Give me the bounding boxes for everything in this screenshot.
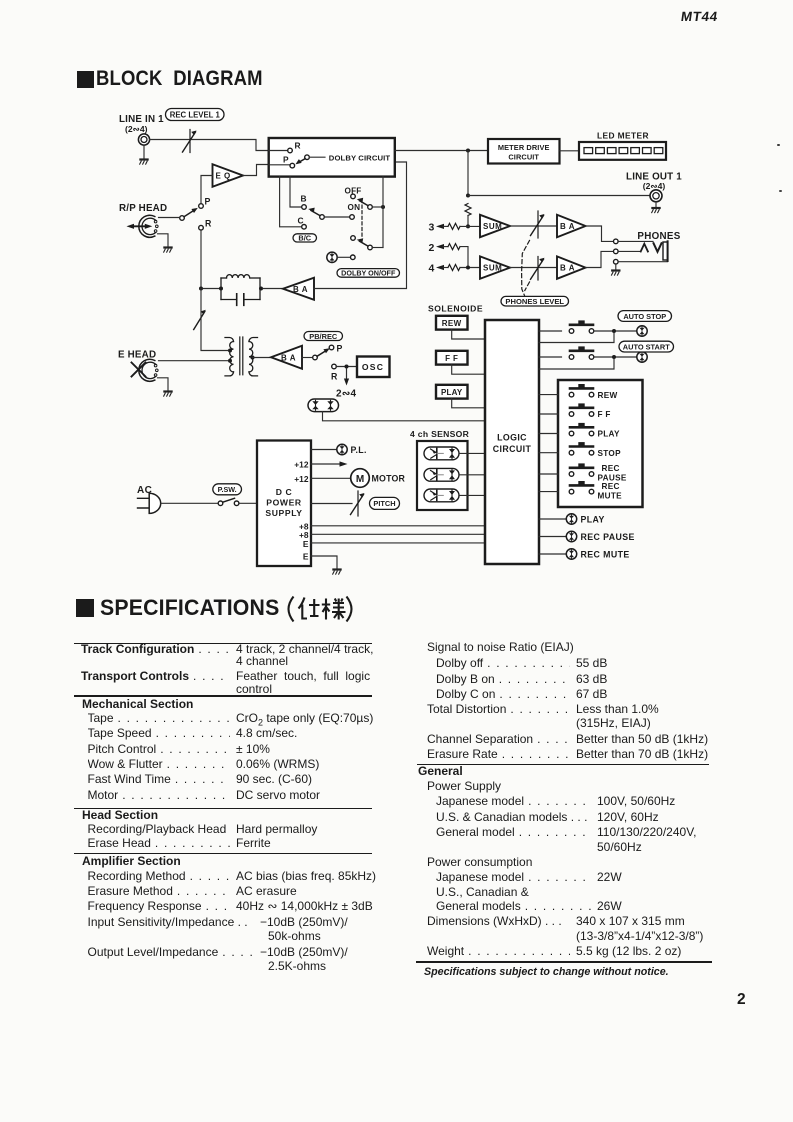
contact pole (head switch): [180, 216, 185, 221]
tap secondary: [251, 356, 255, 360]
svg-text:MUTE: MUTE: [598, 491, 623, 500]
pushbutton auto stop: [569, 320, 594, 333]
wire node down to transformer: [201, 289, 228, 351]
wire +8 b to logic: [311, 533, 485, 535]
wire logic to PLAY connector: [539, 518, 566, 520]
wire SUM2 to BA2: [510, 267, 557, 269]
svg-text:PHONES LEVEL: PHONES LEVEL: [505, 297, 564, 306]
wire dolby box to on/off bus: [382, 177, 384, 248]
wire to line out jack: [468, 195, 650, 197]
svg-text:METER DRIVE: METER DRIVE: [498, 143, 550, 152]
svg-text:REW: REW: [598, 391, 618, 400]
label pill P.SW.: [213, 484, 242, 495]
connector REC PAUSE: [566, 531, 576, 541]
wire BA2 to phones ring contact: [586, 251, 614, 267]
wire AC plug to power switch: [161, 502, 219, 504]
contact P (rec/play switch): [199, 204, 204, 209]
wire LINE IN to dolby R input: [150, 140, 269, 151]
LED segments: [584, 148, 663, 154]
AC plug symbol: [138, 493, 161, 513]
contact C: [302, 225, 307, 230]
bias amplifier BA (top): [283, 278, 314, 300]
svg-text:F F: F F: [598, 410, 611, 419]
resistor mix ch1: [465, 204, 471, 216]
ground at E head: [164, 392, 172, 397]
record amplifier BA (lower): [271, 346, 302, 369]
label pill AUTO START: [619, 341, 674, 352]
ground at phones: [612, 271, 620, 276]
contact power switch B: [234, 501, 239, 506]
svg-text:OSC: OSC: [362, 362, 384, 372]
rec level control RV1: [183, 130, 197, 153]
label pill PHONES LEVEL: [501, 296, 569, 306]
svg-text:LED METER: LED METER: [597, 130, 649, 140]
wire remote connector stub: [337, 256, 350, 258]
contact remote dolby: [351, 255, 356, 260]
junction line out: [466, 194, 470, 198]
opto sensor 2: [424, 468, 459, 481]
wire transformer to rec amp: [253, 357, 272, 359]
section heading BLOCK DIAGRAM: [77, 71, 94, 88]
wire bias amp from dolby box: [314, 162, 407, 289]
wire dolby R stub: [269, 150, 288, 152]
arrowhead ch2: [436, 244, 444, 249]
svg-text:AUTO STOP: AUTO STOP: [623, 312, 666, 321]
wire node to LC tank: [203, 288, 219, 290]
wire dolby to B contact: [290, 177, 302, 207]
arrow to 2~4 channels: [344, 369, 349, 386]
resistor ch4: [448, 265, 460, 271]
pushbutton auto start: [569, 346, 594, 359]
contact power switch A: [218, 501, 223, 506]
switch blade PB/REC: [317, 348, 330, 356]
svg-text:PLAY: PLAY: [581, 514, 605, 524]
wire PL lamp: [311, 449, 337, 451]
summing amp SUM (top): [480, 215, 510, 237]
phones level control A: [531, 211, 545, 238]
label pill B/C: [293, 234, 317, 243]
svg-text:F F: F F: [445, 354, 458, 363]
svg-text:DOLBY ON/OFF: DOLBY ON/OFF: [341, 269, 396, 278]
wire logic to FF key: [539, 413, 558, 415]
meter drive circuit box: [488, 139, 560, 164]
transport keys box: [558, 380, 643, 507]
svg-text:REC MUTE: REC MUTE: [581, 549, 630, 559]
svg-text:B: B: [301, 194, 307, 204]
svg-text:MOTOR: MOTOR: [372, 474, 406, 484]
junction sum1 input: [466, 224, 470, 228]
ground at power supply: [333, 570, 341, 575]
page header MT44: [680, 9, 719, 24]
right spec column: [427, 641, 574, 654]
section heading SPECIFICATIONS: [76, 599, 94, 617]
svg-text:R: R: [295, 141, 301, 151]
wire +12 arrow: [311, 461, 348, 466]
svg-text:P: P: [283, 155, 289, 165]
wire E head to transformer: [159, 360, 228, 362]
contact pole B/C: [320, 215, 325, 220]
wire ch2 to node: [460, 247, 468, 266]
wire contact3 to plug sleeve: [618, 260, 667, 262]
tap primary lower: [228, 359, 232, 363]
LED meter box: [579, 142, 666, 160]
wire logic to auto start key: [539, 356, 562, 358]
switch blade dolby on/off B: [357, 238, 368, 246]
contact pole dolby on/off A: [368, 205, 373, 210]
wire logic to REC MUTE key: [539, 491, 558, 493]
resistor ch3: [448, 223, 460, 229]
solenoid FF box: [436, 351, 468, 365]
wire auto stop sense: [539, 333, 614, 343]
wire head to ground: [158, 234, 169, 247]
svg-text:2: 2: [429, 242, 435, 254]
contact pole PB/REC: [313, 355, 318, 360]
svg-text:DOLBY CIRCUIT: DOLBY CIRCUIT: [329, 154, 391, 163]
svg-text:REC LEVEL 1: REC LEVEL 1: [170, 110, 221, 119]
dashed linkage phones level: [522, 241, 530, 296]
contact phones 2: [614, 249, 619, 254]
svg-text:4 ch SENSOR: 4 ch SENSOR: [410, 429, 470, 439]
wire FF solenoid to logic: [452, 365, 485, 375]
wire logic to REC PAUSE key: [539, 473, 558, 475]
svg-text:M: M: [356, 474, 364, 485]
wire EQ out to dolby P input: [243, 165, 269, 176]
wire sensor 3 to logic: [459, 494, 485, 496]
wire 2~4 connector to logic circuit: [323, 412, 486, 421]
wire auto stop key to connector: [594, 330, 637, 332]
summing amp SUM (bottom): [480, 256, 510, 278]
resistor ch2: [448, 244, 460, 250]
wire sensor 2 to logic: [459, 474, 485, 476]
left spec column: [74, 643, 372, 645]
svg-text:+12: +12: [294, 474, 309, 484]
ground at LINE OUT jack: [652, 208, 660, 213]
contact B: [302, 205, 307, 210]
svg-text:P.SW.: P.SW.: [218, 485, 237, 494]
heading kanji (仕様): [285, 594, 355, 624]
wire E to ground: [311, 556, 337, 569]
logic circuit box: [485, 320, 539, 564]
LC tank L1/C1: [221, 275, 260, 306]
wire auto start key to connector: [594, 356, 637, 358]
svg-text:P: P: [337, 344, 343, 354]
wire ch4 to SUM: [460, 267, 480, 269]
wire BA to phones tip contact: [586, 226, 614, 241]
wire contact3 to ground: [615, 264, 617, 270]
wire rec amp to PB/REC switch: [302, 357, 313, 359]
wire ch4: [443, 267, 448, 269]
svg-text:PLAY: PLAY: [441, 388, 463, 397]
DC power supply box: [257, 441, 311, 567]
wire auto start sense: [539, 359, 614, 369]
svg-text:REC PAUSE: REC PAUSE: [581, 532, 635, 542]
svg-text:REW: REW: [442, 319, 462, 328]
oscillator OSC box: [357, 357, 390, 378]
R/P head symbol: [127, 215, 159, 237]
pushbutton REC MUTE: [569, 481, 594, 494]
switch blade inside dolby: [295, 159, 305, 165]
pushbutton STOP: [569, 442, 594, 455]
svg-text:SUM: SUM: [483, 264, 502, 273]
wire jack to ground: [143, 145, 145, 158]
switch blade head P/R: [184, 208, 198, 217]
svg-text:E: E: [303, 551, 309, 561]
wire B/C pole to ON contact: [324, 216, 349, 218]
svg-text:E: E: [303, 539, 309, 549]
wire logic to auto stop key: [539, 330, 562, 332]
arrowhead ch4: [436, 265, 444, 270]
svg-text:4: 4: [429, 263, 435, 275]
playback level control RV2: [194, 310, 206, 330]
junction auto start: [612, 355, 616, 359]
erase head symbol: [132, 359, 159, 381]
svg-text:B A: B A: [560, 222, 575, 231]
switch blade power: [223, 498, 235, 502]
solenoid PLAY box: [436, 385, 468, 399]
wire switch to DC supply: [239, 502, 257, 504]
scan speck: [779, 190, 782, 192]
svg-text:PB/REC: PB/REC: [309, 332, 338, 341]
svg-text:+12: +12: [294, 459, 309, 469]
motor M1: [351, 469, 370, 488]
svg-text:PAUSE: PAUSE: [598, 473, 627, 482]
svg-text:PITCH: PITCH: [373, 499, 395, 508]
label pill PITCH: [370, 497, 400, 509]
svg-text:2∾4: 2∾4: [336, 389, 357, 400]
page number: [737, 991, 746, 1009]
svg-text:C: C: [298, 216, 304, 226]
ground at LINE IN jack: [140, 160, 148, 165]
contact dolby on/off B: [351, 236, 356, 241]
amplifier EQ: [213, 164, 244, 187]
svg-text:REC: REC: [602, 464, 620, 473]
wire E to logic: [311, 542, 485, 544]
switch blade dolby on/off A: [357, 198, 368, 206]
opto sensor 1: [424, 447, 459, 460]
wire +8 to logic: [311, 525, 485, 527]
wire E head to ground: [158, 378, 169, 391]
svg-text:LOGIC: LOGIC: [497, 433, 527, 443]
wire REW solenoid to logic: [452, 330, 485, 339]
contact R (rec/play switch): [199, 225, 204, 230]
connector P.L.: [337, 444, 347, 454]
wire logic to REC PAUSE connector: [539, 536, 566, 538]
jack LINE OUT 1: [650, 190, 662, 202]
wire logic to PLAY key: [539, 433, 558, 435]
svg-text:P.L.: P.L.: [351, 445, 367, 455]
svg-text:3: 3: [429, 222, 435, 234]
contact P (PB/REC): [329, 345, 334, 350]
tap primary upper: [228, 349, 232, 353]
solenoid REW box: [436, 316, 468, 330]
wire jack to ground: [655, 202, 657, 207]
wire dolby out to meter drive: [395, 150, 488, 152]
junction meter line: [466, 149, 470, 153]
wire contact1 to plug: [618, 240, 653, 242]
scan speck: [777, 144, 780, 146]
junction dolby on/off bus: [381, 205, 385, 209]
svg-text:SUPPLY: SUPPLY: [265, 508, 302, 518]
contact pole dolby on/off B: [368, 245, 373, 250]
arrowhead ch3: [436, 224, 444, 229]
svg-text:B A: B A: [293, 285, 308, 294]
pushbutton REC PAUSE: [569, 463, 594, 476]
contact P inside dolby: [290, 163, 295, 168]
label pill PB/REC: [304, 332, 343, 341]
svg-text:D C: D C: [276, 487, 293, 497]
svg-text:POWER: POWER: [266, 498, 302, 508]
svg-text:B A: B A: [281, 353, 296, 362]
transformer T1: [225, 337, 258, 376]
connector auto stop: [637, 326, 647, 336]
wire contact2 to plug tip: [618, 250, 640, 252]
wire ch3: [443, 225, 448, 227]
wire head to switch pole: [159, 217, 180, 219]
pitch control RV3: [351, 491, 365, 516]
wire pole A to bus: [372, 206, 381, 208]
junction osc line: [345, 365, 349, 369]
wire motor supply: [311, 477, 351, 479]
wire resistor to node: [467, 216, 469, 225]
phones plug symbol: [641, 241, 668, 261]
wire ch2: [443, 246, 448, 248]
svg-text:SUM: SUM: [483, 222, 502, 231]
connector REC MUTE: [566, 549, 576, 559]
wire SUM to BA: [510, 225, 557, 227]
dashed linkage phones level B: [525, 282, 530, 291]
dolby circuit box U1: [269, 138, 395, 177]
label pill REC LEVEL 1: [166, 109, 225, 121]
junction sum2 input: [466, 266, 470, 270]
svg-text:CIRCUIT: CIRCUIT: [493, 444, 532, 454]
headphone amp BA (top): [557, 215, 586, 237]
junction LC right: [259, 287, 263, 291]
contact OFF: [351, 194, 356, 199]
mechanical link dashed: [361, 200, 363, 237]
contact phones 1: [614, 239, 619, 244]
wire sensor 1 to logic: [459, 452, 485, 454]
contact R (PB/REC): [332, 364, 337, 369]
wire R contact to OSC: [336, 366, 357, 368]
svg-text:SOLENOIDE: SOLENOIDE: [428, 303, 483, 313]
label pill DOLBY ON/OFF: [337, 269, 400, 278]
footnote: [424, 966, 669, 978]
switch blade B/C: [308, 208, 320, 216]
wire R contact down to rec chain: [200, 230, 202, 287]
svg-text:CIRCUIT: CIRCUIT: [508, 152, 539, 161]
wire junction down: [467, 151, 469, 194]
sensor box: [417, 441, 468, 510]
connector PLAY: [566, 514, 576, 524]
contact R inside dolby: [288, 148, 293, 153]
jack LINE IN 1: [138, 134, 149, 145]
connector auto start: [637, 352, 647, 362]
wire logic to REW key: [539, 394, 558, 396]
junction auto stop: [612, 329, 616, 333]
wire meter drive to LED meter: [560, 150, 580, 152]
contact phones 3: [614, 259, 619, 264]
opto sensor 3: [424, 489, 459, 502]
svg-text:R: R: [331, 372, 338, 382]
wire pole stub: [309, 156, 325, 158]
svg-text:E Q: E Q: [216, 172, 231, 181]
wire PLAY solenoid to logic: [452, 399, 485, 408]
svg-text:(2∾4): (2∾4): [125, 124, 148, 134]
contact ON: [350, 215, 355, 220]
ground at R/P head: [164, 248, 172, 253]
svg-text:R/P HEAD: R/P HEAD: [119, 203, 167, 214]
svg-text:B/C: B/C: [298, 234, 311, 243]
wire logic to REC MUTE connector: [539, 553, 566, 555]
pushbutton PLAY: [569, 423, 594, 436]
svg-text:R: R: [205, 219, 212, 229]
junction rec line: [199, 287, 203, 291]
svg-text:P: P: [205, 197, 211, 207]
svg-text:REC: REC: [602, 482, 620, 491]
svg-text:ON: ON: [348, 203, 361, 212]
wire LC to bias amp: [263, 288, 283, 290]
headphone amp BA (bottom): [557, 256, 586, 278]
svg-text:PLAY: PLAY: [598, 430, 621, 439]
connector remote dolby: [327, 252, 337, 262]
pushbutton FF: [569, 403, 594, 416]
svg-text:PHONES: PHONES: [637, 231, 680, 242]
junction LC left: [219, 287, 223, 291]
wire dolby to C contact: [280, 177, 302, 227]
wire pole B to bus: [372, 247, 383, 249]
connector 2~4 oval: [308, 399, 339, 412]
wire ch3 to SUM: [460, 225, 480, 227]
contact pole inside dolby: [305, 155, 310, 160]
svg-text:B A: B A: [560, 264, 575, 273]
wire dolby P stub: [269, 164, 290, 166]
wire pitch control: [311, 503, 352, 505]
label pill AUTO STOP: [618, 311, 672, 322]
wire logic to STOP key: [539, 452, 558, 454]
pushbutton REW: [569, 384, 594, 397]
wire EQ input from P contact: [201, 176, 213, 204]
svg-text:AUTO START: AUTO START: [623, 342, 670, 351]
svg-text:STOP: STOP: [598, 449, 622, 458]
phones level control B: [531, 257, 545, 281]
